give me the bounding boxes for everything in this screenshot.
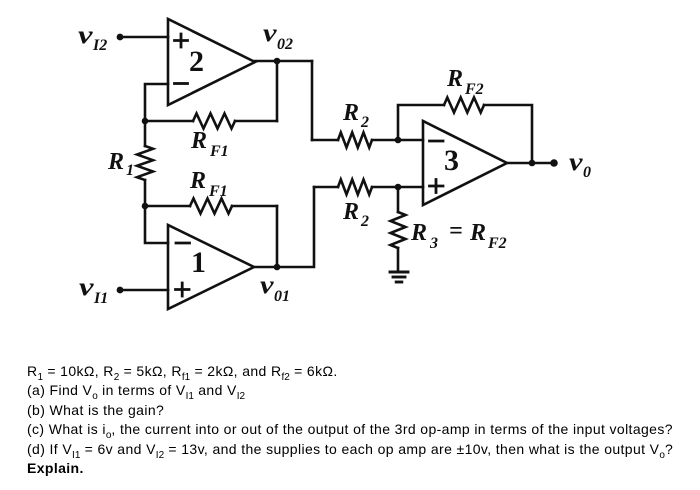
svg-text:F2: F2: [487, 235, 507, 252]
resistor RF1 top: [145, 114, 277, 129]
label RF2: [446, 66, 484, 98]
node v01 junction: [274, 264, 281, 271]
svg-text:F1: F1: [208, 183, 228, 200]
node B junction: [142, 203, 149, 210]
resistor R2 top: [312, 133, 398, 148]
node v0 terminal: [550, 159, 558, 167]
op-amp U1: [168, 225, 254, 309]
node vI2 terminal: [117, 34, 124, 41]
svg-text:F1: F1: [209, 143, 229, 160]
svg-text:F2: F2: [464, 81, 484, 98]
wire vI1 to op1 plus input: [123, 289, 168, 292]
svg-text:02: 02: [277, 36, 293, 53]
wire op2 minus input: [145, 84, 168, 121]
svg-text:v: v: [569, 149, 584, 176]
wire v01 feedback up: [276, 206, 279, 267]
resistor R2 bottom: [314, 180, 398, 195]
svg-text:3: 3: [444, 144, 459, 177]
node v02 junction: [274, 58, 281, 65]
resistor RF1 bottom: [145, 199, 277, 214]
resistor R3: [391, 187, 406, 271]
wire vI2 to op2 plus input: [123, 36, 168, 39]
label v01: [260, 272, 290, 305]
node A junction: [142, 118, 149, 125]
wire op1 output: [254, 266, 277, 269]
svg-text:=: =: [449, 218, 463, 244]
resistor R1: [137, 121, 153, 206]
label R1: [107, 149, 134, 179]
node op3 output junction: [529, 160, 536, 167]
svg-text:2: 2: [360, 213, 369, 230]
svg-text:v: v: [263, 20, 278, 47]
svg-text:R: R: [342, 100, 359, 126]
svg-text:R: R: [189, 168, 206, 194]
label v0: [569, 149, 591, 181]
svg-text:R: R: [446, 66, 463, 92]
wire down to R2 top: [311, 61, 314, 140]
resistor RF2: [398, 98, 532, 164]
svg-text:R: R: [342, 199, 359, 225]
svg-text:01: 01: [274, 288, 290, 305]
svg-text:1: 1: [191, 246, 206, 279]
label RF1 top: [190, 128, 229, 160]
svg-text:I2: I2: [92, 37, 107, 54]
label R2 top: [342, 100, 369, 131]
svg-text:v: v: [260, 272, 275, 299]
svg-text:2: 2: [189, 45, 204, 78]
label RF1 bottom: [189, 168, 228, 200]
label vI2: [78, 22, 107, 54]
wire v02 feedback down: [276, 61, 279, 121]
label R2 bottom: [342, 199, 369, 230]
wire to op3 minus input: [398, 139, 423, 142]
label v02: [263, 20, 293, 53]
svg-text:v: v: [78, 22, 94, 49]
wire to op3 plus input: [398, 186, 423, 189]
svg-text:2: 2: [360, 114, 369, 131]
wire op1 minus input: [145, 206, 168, 243]
svg-text:1: 1: [126, 162, 134, 179]
svg-text:0: 0: [583, 164, 591, 181]
wire op2 output: [255, 60, 312, 63]
svg-text:v: v: [79, 274, 95, 301]
wire op3 output: [507, 162, 553, 165]
svg-text:R: R: [469, 220, 486, 246]
op-amp U3: [423, 121, 507, 205]
node op3 plus junction: [395, 184, 402, 191]
svg-text:R: R: [190, 128, 207, 154]
label R3 = RF2: [410, 218, 507, 252]
node op3 minus junction: [395, 137, 402, 144]
svg-text:R: R: [107, 149, 124, 175]
label vI1: [79, 274, 108, 307]
svg-text:3: 3: [429, 235, 438, 252]
node vI1 terminal: [117, 287, 124, 294]
svg-text:I1: I1: [93, 290, 108, 307]
op-amp U2: [168, 19, 255, 105]
svg-text:R: R: [410, 220, 427, 246]
ground: [390, 272, 408, 282]
wire v01 right and up to R2 bottom: [277, 187, 314, 267]
